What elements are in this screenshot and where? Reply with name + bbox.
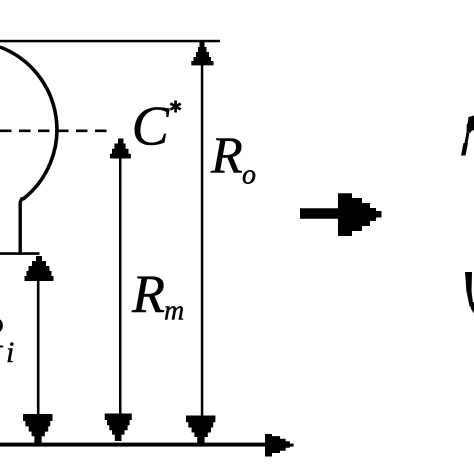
svg-text:o: o <box>242 160 256 191</box>
wire Ro dimension line <box>201 44 204 442</box>
dashed center line <box>0 129 113 132</box>
arrow big transform arrow <box>300 193 382 236</box>
arrow Ri up arrowhead <box>25 256 54 281</box>
svg-text:R: R <box>0 308 4 357</box>
wire top reference line <box>0 40 220 43</box>
glyph partial right bottom <box>465 272 472 293</box>
arrow C down arrowhead <box>105 414 132 442</box>
arrow Ro down arrowhead <box>186 416 215 444</box>
wire Ri dimension line <box>37 258 40 442</box>
svg-text:R: R <box>210 128 243 185</box>
arrow axis right arrowhead <box>265 434 294 457</box>
arrow C up arrowhead <box>110 139 131 159</box>
svg-text:R: R <box>131 264 165 324</box>
indenter profile arc <box>0 47 57 200</box>
glyph partial right top <box>461 143 468 156</box>
wire bottom axis <box>0 443 266 447</box>
indenter profile lower segment <box>20 198 22 254</box>
svg-text:C: C <box>132 95 170 157</box>
wire C dimension line <box>119 158 122 428</box>
arrow Ro up arrowhead <box>191 42 213 65</box>
label C asterisk <box>170 101 182 113</box>
svg-text:i: i <box>6 336 14 369</box>
arrow Ri down arrowhead <box>23 414 53 443</box>
wire Ri horizontal line <box>0 252 40 255</box>
svg-text:m: m <box>164 296 184 327</box>
